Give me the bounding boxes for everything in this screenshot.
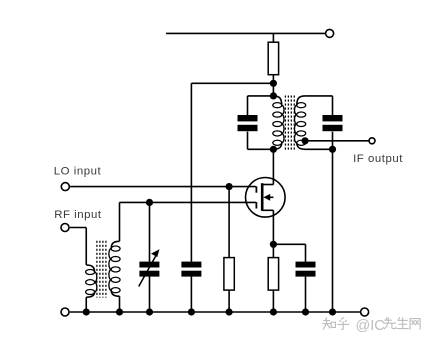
node F source bias junction — [270, 241, 277, 248]
transformer T2 core — [284, 96, 286, 151]
wire T1 secondary to ground — [119, 296, 121, 312]
transistor Q1 substrate arrow — [263, 194, 270, 201]
terminal ground left — [61, 308, 69, 316]
wire gate-2 node to R2 — [228, 187, 230, 258]
wire source — [272, 210, 274, 257]
wire R1 to node A — [272, 75, 274, 96]
node gate-1 tank junction — [146, 199, 153, 206]
node ground right rail — [329, 308, 336, 315]
watermark zhihu @IC — [325, 318, 326, 320]
node ground C5 — [302, 308, 309, 315]
wire rail to R1 — [272, 33, 274, 42]
wire primary top to C1 — [248, 95, 274, 97]
wire C5 top — [305, 244, 307, 261]
terminal LO input — [61, 183, 69, 191]
node ground T1 secondary — [116, 308, 123, 315]
svg-text:IF output: IF output — [353, 153, 403, 165]
resistor R2 — [224, 258, 234, 291]
capacitor C2 — [181, 262, 201, 268]
wire C3 right leg upper — [332, 96, 334, 115]
svg-text:LO input: LO input — [54, 166, 102, 178]
wire source node to C5 — [273, 243, 305, 245]
wire vertical down to C2 — [190, 83, 192, 261]
terminal supply +V — [326, 29, 334, 37]
wire drain — [272, 149, 274, 184]
transistor Q1 source elbow — [262, 209, 273, 211]
transformer T1 core — [96, 241, 98, 298]
resistor R3 — [268, 258, 278, 291]
node D secondary bottom junction — [329, 146, 336, 153]
wire secondary bottom — [305, 148, 332, 150]
wire C5 to ground — [305, 276, 307, 312]
wire C1 to primary bottom — [248, 148, 274, 150]
transistor Q1 channel — [261, 183, 264, 211]
wire ground rail — [70, 311, 360, 313]
svg-text:@IC: @IC — [356, 318, 385, 334]
wire R3 to ground — [272, 290, 274, 312]
transistor Q1 substrate lead — [267, 196, 274, 198]
variable capacitor VC1 — [139, 262, 159, 268]
node C primary bottom drain node — [270, 146, 277, 153]
wire LO to gate 2 — [70, 186, 256, 188]
wire RF down to T1 primary — [85, 228, 87, 266]
node ground R3 — [270, 308, 277, 315]
svg-text:RF input: RF input — [54, 209, 102, 221]
wire T1 secondary riser — [119, 202, 121, 241]
wire node A to bypass C2 — [191, 82, 273, 84]
wire C2 to ground — [190, 276, 192, 312]
wire IF output lead — [305, 140, 369, 142]
wire gate-1 line — [120, 201, 256, 203]
capacitor C1 — [238, 115, 258, 121]
transformer T2 secondary winding — [297, 96, 305, 105]
node E secondary tap — [302, 137, 309, 144]
node gate-2 bias junction — [226, 183, 233, 190]
terminal IF output — [369, 138, 375, 144]
transistor Q1 drain elbow — [262, 184, 273, 186]
transistor Q1 gate-1 bar — [255, 202, 257, 208]
transistor Q1 gate-2 bar — [255, 186, 257, 192]
capacitor C5 — [296, 262, 316, 268]
resistor R1 — [268, 42, 278, 74]
node B primary top — [270, 92, 277, 99]
node ground R2 — [226, 308, 233, 315]
terminal RF input — [61, 224, 69, 232]
transistor Q1 body circle — [245, 178, 285, 218]
wire T1 primary to ground — [85, 297, 87, 312]
wire C1 left leg lower — [247, 132, 249, 150]
wire R2 to ground — [228, 290, 230, 312]
transformer T1 primary winding — [86, 265, 94, 272]
terminal ground right — [361, 308, 369, 316]
wire secondary top to C3 — [305, 95, 332, 97]
variable capacitor VC1 arrow — [139, 256, 156, 286]
wire C1 left leg upper — [247, 96, 249, 115]
wire RF input lead — [70, 227, 86, 229]
transformer T1 secondary winding — [111, 241, 119, 248]
node ground varcap — [146, 308, 153, 315]
node ground T1 primary — [83, 308, 90, 315]
transformer T2 primary winding — [273, 96, 281, 105]
wire C3 down right rail — [332, 132, 334, 312]
wire top supply rail — [166, 32, 326, 34]
wire varcap top — [149, 202, 151, 261]
capacitor C3 — [323, 115, 343, 121]
wire varcap to ground — [149, 276, 151, 312]
node A drain-resistor junction — [270, 80, 277, 87]
node ground C2 — [188, 308, 195, 315]
